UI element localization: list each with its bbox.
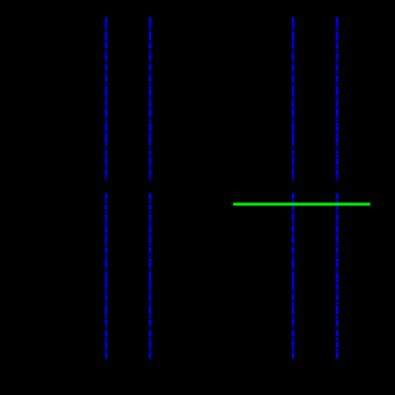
blue dash-dot vertical line 1 lower segment <box>105 193 107 359</box>
blue dash-dot vertical line 4 lower segment <box>336 193 338 359</box>
blue dash-dot vertical line 2 upper segment <box>149 17 151 181</box>
blue dash-dot vertical line 3 lower segment <box>292 193 294 359</box>
blue dash-dot vertical line 4 upper segment <box>336 17 338 181</box>
blue dash-dot vertical line 3 upper segment <box>292 17 294 181</box>
green horizontal line <box>233 203 370 206</box>
blue dash-dot vertical line 2 lower segment <box>149 193 151 359</box>
blue dash-dot vertical line 1 upper segment <box>105 17 107 181</box>
